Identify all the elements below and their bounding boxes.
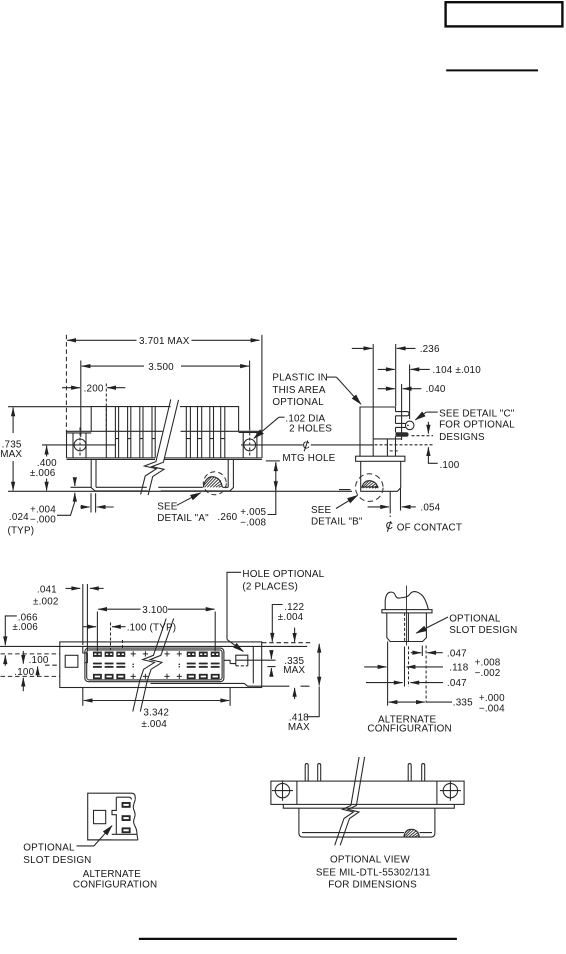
square hole xyxy=(94,810,106,823)
MTG hole centerline through end view (dashed) xyxy=(375,444,434,446)
SEE DETAIL "B" label xyxy=(311,495,363,527)
dimension .200 xyxy=(62,383,125,433)
dimension .100 (end view) xyxy=(428,422,459,471)
svg-text:.100: .100 xyxy=(440,460,460,471)
hidden slot dashes xyxy=(390,450,400,452)
svg-text:±.004: ±.004 xyxy=(141,719,167,730)
dimension .335 +.000/-.004 xyxy=(389,693,506,715)
dimension .335 MAX / .418 MAX xyxy=(283,644,319,733)
svg-text:DESIGNS: DESIGNS xyxy=(439,432,485,443)
wavy torn edge xyxy=(133,800,137,835)
svg-text:.040: .040 xyxy=(426,384,446,395)
svg-text:.200: .200 xyxy=(84,383,104,394)
svg-text:3.500: 3.500 xyxy=(148,362,174,373)
inner bottom edge with chamfer + extensions xyxy=(151,683,310,686)
end view inner verticals and step xyxy=(373,407,401,456)
svg-text:FOR DIMENSIONS: FOR DIMENSIONS xyxy=(328,880,417,891)
connector comb body top edge xyxy=(91,407,238,432)
title block box top right xyxy=(446,2,563,26)
end view flange slab xyxy=(356,456,405,461)
right mounting ear xyxy=(239,432,262,458)
PLASTIC IN THIS AREA OPTIONAL note xyxy=(272,373,361,408)
dashed line right of body xyxy=(262,642,312,644)
left mounting hole xyxy=(275,783,289,797)
.102 DIA 2 HOLES note xyxy=(254,413,332,438)
slot lines xyxy=(407,613,409,642)
svg-text:3.342: 3.342 xyxy=(143,707,169,718)
SEE DETAIL "A" label xyxy=(157,493,209,524)
HOLE OPTIONAL (2 PLACES) note xyxy=(227,569,325,651)
dimension .024 callout xyxy=(8,480,114,537)
break lines (bottom right view) xyxy=(335,757,359,845)
svg-text:OPTIONAL: OPTIONAL xyxy=(23,843,75,854)
centerline of contact label xyxy=(386,521,462,533)
OPTIONAL SLOT DESIGN note (mid-right) xyxy=(416,614,517,636)
dimension .735 MAX xyxy=(0,408,22,491)
flange bar xyxy=(382,610,432,613)
inner top edge + extensions xyxy=(0,645,307,647)
detail B dashed circle xyxy=(356,474,384,502)
row 2 contacts xyxy=(93,663,102,668)
step notch xyxy=(112,797,116,834)
dimension 3.342 +/-.004 xyxy=(83,688,230,730)
inner top edge xyxy=(116,797,131,799)
svg-text:.236: .236 xyxy=(420,344,440,355)
dimension .047 (upper) xyxy=(411,648,467,659)
svg-text:SEE DETAIL "C": SEE DETAIL "C" xyxy=(439,408,515,419)
left extension lines xyxy=(8,406,91,408)
outer body corner outline xyxy=(88,793,136,840)
wire wrap posts xyxy=(305,764,308,782)
left mounting ear xyxy=(67,433,92,458)
contact pin 2 with detail C circle xyxy=(396,423,406,427)
svg-text:SEE MIL-DTL-55302/131: SEE MIL-DTL-55302/131 xyxy=(316,867,431,878)
svg-text:OPTIONAL: OPTIONAL xyxy=(272,397,324,408)
dimension .100 (TYP) xyxy=(83,623,176,634)
small arrows at step lines xyxy=(270,653,272,673)
outer flange rectangle xyxy=(60,642,262,688)
row 1 contacts xyxy=(93,652,102,657)
svg-text:±.004: ±.004 xyxy=(278,612,304,623)
end view body outline xyxy=(360,407,396,456)
svg-text:FOR OPTIONAL: FOR OPTIONAL xyxy=(439,420,515,431)
contact field double rounded rectangle xyxy=(85,648,224,682)
lower skirt of connector xyxy=(91,460,233,491)
svg-text:SLOT DESIGN: SLOT DESIGN xyxy=(449,625,517,636)
svg-text:.047: .047 xyxy=(447,648,467,659)
svg-text:THIS AREA: THIS AREA xyxy=(272,385,325,396)
centerline symbol MTG HOLE xyxy=(282,440,373,464)
svg-text:SEE: SEE xyxy=(311,505,332,516)
dimension 3.701 MAX xyxy=(66,335,262,433)
svg-text:±.002: ±.002 xyxy=(33,597,59,608)
svg-text:SEE: SEE xyxy=(157,502,178,513)
contact pin 1 (top, side tail) xyxy=(396,412,410,416)
svg-text:MAX: MAX xyxy=(0,449,22,460)
svg-text:MTG HOLE: MTG HOLE xyxy=(282,453,335,464)
left optional hole xyxy=(65,655,78,667)
row2 colon marks xyxy=(133,664,181,668)
svg-text:−.004: −.004 xyxy=(479,703,505,714)
svg-text:2 HOLES: 2 HOLES xyxy=(289,424,332,435)
lip under bar xyxy=(283,804,454,808)
svg-text:DETAIL "A": DETAIL "A" xyxy=(157,513,209,524)
extension lines below alt body xyxy=(387,642,389,706)
dimension .100 (rows 2-3) xyxy=(14,667,37,692)
dimension .040 xyxy=(378,384,446,395)
svg-text:.024: .024 xyxy=(9,512,29,523)
svg-text:+.000: +.000 xyxy=(479,693,505,704)
break lines (top view) xyxy=(141,399,171,494)
svg-text:MAX: MAX xyxy=(283,665,305,676)
svg-text:.041: .041 xyxy=(37,584,57,595)
svg-text:CONFIGURATION: CONFIGURATION xyxy=(73,879,157,890)
svg-text:.260: .260 xyxy=(217,512,237,523)
svg-text:CONFIGURATION: CONFIGURATION xyxy=(367,723,451,734)
svg-text:HOLE OPTIONAL: HOLE OPTIONAL xyxy=(242,569,324,580)
step extension lines right xyxy=(236,660,276,666)
svg-text:−.000: −.000 xyxy=(30,514,56,525)
svg-text:OPTIONAL: OPTIONAL xyxy=(449,614,501,625)
mounting plate bottom edges xyxy=(67,458,263,460)
dimension .066 +/-.006 xyxy=(5,612,38,665)
svg-text:.118: .118 xyxy=(449,662,469,673)
end view skirt xyxy=(361,461,401,491)
left mounting hole xyxy=(74,439,86,451)
OPTIONAL SLOT DESIGN note (bottom left) xyxy=(23,826,112,866)
dimension .400 +/-.006 xyxy=(30,446,57,491)
contact pin 3 (sectioned) xyxy=(396,432,409,437)
mounting bar xyxy=(271,781,464,804)
svg-text:.335: .335 xyxy=(453,698,473,709)
extension lines above end view xyxy=(372,344,374,407)
footer rule xyxy=(139,938,457,940)
svg-text:(TYP): (TYP) xyxy=(8,526,35,537)
svg-text:3.100: 3.100 xyxy=(142,605,168,616)
svg-text:±.006: ±.006 xyxy=(12,622,38,633)
mounting plate top edge xyxy=(67,430,263,432)
svg-text:OF CONTACT: OF CONTACT xyxy=(397,522,462,533)
svg-text:−.002: −.002 xyxy=(475,668,501,679)
plus position marks xyxy=(131,651,136,656)
contact tail below end view xyxy=(339,488,401,511)
dimension .041 +/-.002 xyxy=(33,584,104,652)
bottom flange bar xyxy=(88,834,138,840)
dimension .236 xyxy=(352,344,440,355)
svg-text:.047: .047 xyxy=(447,678,467,689)
detail A dashed circle xyxy=(203,472,226,495)
svg-text:−.008: −.008 xyxy=(240,517,266,528)
detail A hatched contact blob xyxy=(203,477,222,488)
row 3 contacts xyxy=(93,674,102,679)
dimension .054 xyxy=(368,502,441,513)
svg-text:OPTIONAL VIEW: OPTIONAL VIEW xyxy=(330,854,410,865)
horizontal rule below title block xyxy=(446,69,538,71)
right mounting hole xyxy=(244,439,256,451)
svg-text:SLOT DESIGN: SLOT DESIGN xyxy=(23,855,91,866)
svg-text:.054: .054 xyxy=(420,502,440,513)
vertical centerline xyxy=(406,586,408,646)
right side step outline xyxy=(224,646,253,683)
svg-text:MAX: MAX xyxy=(288,722,310,733)
dimension 3.500 xyxy=(81,361,250,438)
body with chamfered bottom xyxy=(387,613,427,642)
dimension .104 +/-.010 xyxy=(378,365,482,376)
comb teeth verticals with slot pairs xyxy=(106,407,225,458)
svg-text:.104 ±.010: .104 ±.010 xyxy=(433,365,482,376)
svg-text:PLASTIC IN: PLASTIC IN xyxy=(272,373,328,384)
dimension .047 (lower) xyxy=(366,678,467,689)
svg-text:.100 (TYP): .100 (TYP) xyxy=(127,623,177,634)
right mounting hole xyxy=(443,783,457,797)
SEE DETAIL "C" FOR OPTIONAL DESIGNS note xyxy=(415,408,515,443)
three contacts xyxy=(122,802,131,833)
dimension 3.100 xyxy=(97,605,215,651)
svg-text:.100: .100 xyxy=(14,667,34,678)
left corner notch xyxy=(83,646,88,662)
dimension .118 +.008/-.002 xyxy=(364,658,501,679)
svg-text:DETAIL "B": DETAIL "B" xyxy=(311,517,363,528)
svg-text:.100: .100 xyxy=(29,655,49,666)
svg-text:±.006: ±.006 xyxy=(30,468,56,479)
break lines (middle view) xyxy=(133,619,166,712)
right optional hole xyxy=(236,655,248,666)
dimension .260 +.005/-.008 xyxy=(217,461,279,528)
dimension .122 +/-.004 xyxy=(272,602,304,699)
svg-text:3.701 MAX: 3.701 MAX xyxy=(139,336,190,347)
hatched contact blob (bottom right view) xyxy=(404,829,420,837)
detail B hatched contact blob xyxy=(362,481,378,489)
skirt (inverted) xyxy=(299,808,435,837)
svg-text:(2 PLACES): (2 PLACES) xyxy=(242,581,298,592)
row centerline stubs (left) xyxy=(1,653,61,655)
row 3 centerline dashed xyxy=(412,435,434,437)
dimension .100 (rows 1-2) xyxy=(23,651,49,666)
wavy cap xyxy=(385,592,428,610)
